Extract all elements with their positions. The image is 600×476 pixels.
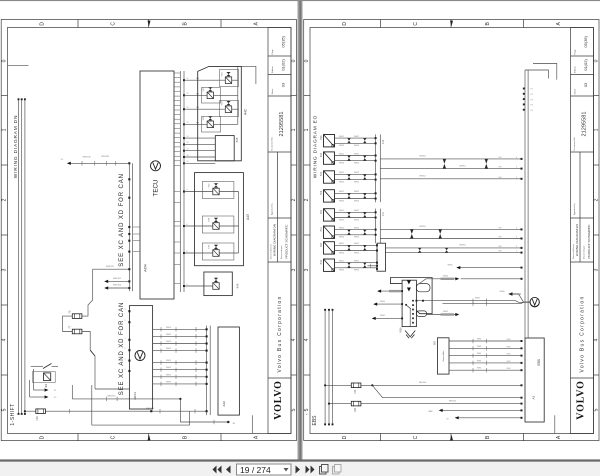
svg-text:WH21: WH21 xyxy=(339,153,344,155)
svg-text:WH21: WH21 xyxy=(339,243,344,245)
valve Y35 xyxy=(207,87,213,99)
svg-text:4: 4 xyxy=(516,157,517,159)
svg-text:4: 4 xyxy=(516,237,517,239)
diode arrows in housing xyxy=(407,280,411,284)
wire into ladder top xyxy=(68,162,129,164)
title block xyxy=(571,28,594,434)
svg-text:4: 4 xyxy=(516,167,517,169)
title block texts xyxy=(269,35,288,419)
svg-text:1: 1 xyxy=(291,128,297,131)
circle symbol right xyxy=(530,297,539,306)
sensor B48 xyxy=(215,136,234,161)
svg-text:P4: P4 xyxy=(531,105,533,107)
svg-text:P3: P3 xyxy=(531,99,533,101)
svg-text:4: 4 xyxy=(291,338,297,341)
svg-text:WH253: WH253 xyxy=(419,226,425,228)
svg-text:Document type: Document type xyxy=(280,245,283,259)
svg-text:F26: F26 xyxy=(354,407,357,412)
svg-text:Page: Page xyxy=(272,49,274,55)
wheel sensor B37 xyxy=(320,242,377,255)
valve housings A42 xyxy=(202,70,239,133)
svg-text:4: 4 xyxy=(304,338,310,341)
svg-text:PRODUCT SCHEMATIC: PRODUCT SCHEMATIC xyxy=(587,224,591,259)
svg-text:19 / 274: 19 / 274 xyxy=(240,465,271,475)
ground W36 xyxy=(405,331,415,339)
svg-text:Approved by: Approved by xyxy=(573,202,576,215)
svg-text:8: 8 xyxy=(187,284,188,286)
feed wire 1 with fuse F43 xyxy=(325,385,521,403)
TECU pin ladder xyxy=(180,71,184,292)
wire hook top-right xyxy=(241,66,256,84)
sheet border frame xyxy=(1,20,296,442)
svg-text:D: D xyxy=(342,435,348,439)
svg-text:D: D xyxy=(342,22,348,26)
svg-text:WH23: WH23 xyxy=(339,219,344,221)
svg-text:WH21: WH21 xyxy=(339,227,344,229)
svg-text:01(02): 01(02) xyxy=(281,59,286,71)
svg-text:WH1341: WH1341 xyxy=(101,156,110,158)
svg-text:0: 0 xyxy=(2,59,8,62)
svg-text:C: C xyxy=(413,435,419,439)
long wires group1 to EBS ECU xyxy=(380,159,521,179)
page-layout icon 2 xyxy=(333,465,342,475)
svg-text:WH24: WH24 xyxy=(354,219,359,221)
svg-text:WH13: WH13 xyxy=(166,367,171,369)
connector box X12 xyxy=(377,243,386,271)
svg-text:VOLVO: VOLVO xyxy=(273,380,284,419)
frame centering arrows xyxy=(450,21,453,27)
bottom arrow wires xyxy=(440,410,522,417)
page number input xyxy=(237,464,292,475)
title block texts xyxy=(572,35,591,419)
svg-text:11: 11 xyxy=(187,78,189,80)
svg-text:A3: A3 xyxy=(531,395,535,399)
svg-text:WH13: WH13 xyxy=(166,327,171,329)
svg-text:0: 0 xyxy=(594,59,600,62)
relay K4 xyxy=(44,373,51,381)
svg-text:WH22: WH22 xyxy=(354,172,359,174)
svg-text:WH22: WH22 xyxy=(354,243,359,245)
svg-text:4: 4 xyxy=(594,338,600,341)
svg-text:WH24: WH24 xyxy=(354,200,359,202)
svg-text:WH22: WH22 xyxy=(354,227,359,229)
wheel sensor B41 xyxy=(320,226,375,239)
sheet border frame xyxy=(304,20,599,442)
svg-text:P1: P1 xyxy=(531,89,533,91)
wires upper right arrows xyxy=(457,268,521,279)
valve Y34 xyxy=(225,101,231,113)
wire stub bottom-right xyxy=(251,415,253,433)
svg-text:1: 1 xyxy=(594,128,600,131)
svg-text:8: 8 xyxy=(187,224,188,226)
svg-text:WH6: WH6 xyxy=(507,346,511,348)
wheel sensor B40 xyxy=(320,152,375,165)
svg-text:WH23: WH23 xyxy=(339,163,344,165)
svg-text:X2: X2 xyxy=(54,397,56,399)
svg-text:3: 3 xyxy=(594,268,600,271)
svg-text:WH22: WH22 xyxy=(354,153,359,155)
wheel sensor B44 xyxy=(320,209,375,222)
svg-text:WH24: WH24 xyxy=(354,252,359,254)
left page sheet xyxy=(0,0,298,461)
svg-text:WH21: WH21 xyxy=(339,172,344,174)
svg-text:WH23: WH23 xyxy=(339,181,344,183)
wire stub bottom-right xyxy=(554,415,556,433)
svg-text:2: 2 xyxy=(2,198,8,201)
svg-text:WH23: WH23 xyxy=(339,200,344,202)
svg-text:D: D xyxy=(39,435,45,439)
wires TECU to A43 xyxy=(184,192,213,254)
svg-text:WH6: WH6 xyxy=(507,368,511,370)
svg-text:2: 2 xyxy=(291,198,297,201)
svg-text:01(02): 01(02) xyxy=(583,59,588,71)
svg-text:21295581: 21295581 xyxy=(279,112,285,137)
svg-text:4: 4 xyxy=(516,177,517,179)
svg-text:B40: B40 xyxy=(320,152,323,157)
svg-text:WH23: WH23 xyxy=(339,252,344,254)
hook wires top xyxy=(525,70,549,79)
valve wires A42 xyxy=(214,66,238,124)
svg-text:WH21: WH21 xyxy=(339,260,344,262)
wires XD arrows xyxy=(106,281,129,288)
svg-text:4: 4 xyxy=(2,338,8,341)
svg-text:WH45: WH45 xyxy=(500,291,505,293)
svg-text:WH24: WH24 xyxy=(354,145,359,147)
svg-text:WH41: WH41 xyxy=(475,298,480,300)
svg-text:B41: B41 xyxy=(320,226,323,231)
svg-text:WH55: WH55 xyxy=(448,265,453,267)
svg-text:VOLVO: VOLVO xyxy=(575,380,586,419)
svg-text:F26: F26 xyxy=(36,416,39,421)
svg-text:WH6: WH6 xyxy=(477,346,481,348)
svg-text:WH21: WH21 xyxy=(339,191,344,193)
svg-text:8: 8 xyxy=(187,251,188,253)
svg-text:EBS: EBS xyxy=(312,415,318,426)
svg-text:P5: P5 xyxy=(531,110,533,112)
svg-text:WH252: WH252 xyxy=(419,176,425,178)
bottom feed wires xyxy=(25,385,228,425)
housing switch diagonal xyxy=(407,306,411,309)
frame grid letters xyxy=(304,21,600,439)
EBS ECU vertical bus xyxy=(525,70,528,338)
top border xyxy=(0,0,600,1)
valve Y36 xyxy=(207,116,213,128)
valve Y38 xyxy=(213,218,219,230)
svg-text:05(35): 05(35) xyxy=(281,35,286,47)
svg-text:1: 1 xyxy=(2,128,8,131)
switch S1 lever xyxy=(43,364,52,369)
pin dots column xyxy=(523,88,525,111)
wheel sensor B43 xyxy=(320,171,375,184)
svg-text:A42: A42 xyxy=(244,109,248,115)
junction housing W36 cluster xyxy=(391,278,433,314)
svg-text:5: 5 xyxy=(2,408,8,411)
svg-text:WH1352: WH1352 xyxy=(113,278,122,280)
fuse F7 xyxy=(72,329,82,334)
svg-text:Document type: Document type xyxy=(583,245,586,259)
side feed arrow wire xyxy=(509,294,523,302)
svg-text:16: 16 xyxy=(187,142,189,144)
svg-text:B33: B33 xyxy=(320,259,323,264)
svg-text:21295581: 21295581 xyxy=(581,112,587,137)
control unit AR14 xyxy=(129,306,152,409)
svg-text:2: 2 xyxy=(594,198,600,201)
housing output wires xyxy=(416,279,530,315)
twisted pair circle right xyxy=(530,298,539,307)
svg-text:WH6: WH6 xyxy=(477,353,481,355)
relay K4 cluster wires xyxy=(30,366,58,397)
svg-text:WH23: WH23 xyxy=(339,270,344,272)
svg-text:B67: B67 xyxy=(434,340,437,345)
svg-text:WH13: WH13 xyxy=(166,341,171,343)
svg-text:3: 3 xyxy=(304,268,310,271)
module A29 xyxy=(218,327,239,415)
valve housings A43 xyxy=(202,182,234,261)
svg-text:WH13: WH13 xyxy=(166,360,171,362)
svg-text:B46: B46 xyxy=(320,190,323,195)
ECU TECU A434 xyxy=(140,71,174,299)
svg-text:F43: F43 xyxy=(354,389,357,394)
svg-text:A29: A29 xyxy=(222,401,226,407)
svg-text:WH21: WH21 xyxy=(339,136,344,138)
svg-text:B37: B37 xyxy=(320,242,323,247)
wire ladder to fuses xyxy=(82,269,129,316)
fuse F26 xyxy=(36,409,46,414)
svg-text:WH24: WH24 xyxy=(354,237,359,239)
svg-text:WH1610: WH1610 xyxy=(107,396,116,398)
svg-text:Sheet: Sheet xyxy=(573,88,576,94)
svg-text:B36: B36 xyxy=(320,135,323,140)
svg-text:WH6: WH6 xyxy=(507,361,511,363)
svg-text:12: 12 xyxy=(187,93,189,95)
svg-text:W36: W36 xyxy=(400,327,403,333)
svg-text:WIRING DIAGRAM DN: WIRING DIAGRAM DN xyxy=(13,115,19,178)
svg-text:17: 17 xyxy=(187,149,189,151)
pin number labels TECU ladder xyxy=(187,78,189,286)
svg-text:WH24: WH24 xyxy=(354,163,359,165)
svg-text:18: 18 xyxy=(187,155,189,157)
long wires group2 to EBS ECU xyxy=(380,229,521,252)
svg-text:C: C xyxy=(413,22,419,26)
svg-text:WH250: WH250 xyxy=(419,156,425,158)
svg-text:WH31: WH31 xyxy=(380,315,385,317)
connector ladder EBS-2 xyxy=(376,209,381,244)
next-page button xyxy=(296,466,301,474)
wheel sensor B36 xyxy=(320,135,375,148)
svg-text:WH22: WH22 xyxy=(354,260,359,262)
svg-text:5: 5 xyxy=(304,408,310,411)
svg-text:15: 15 xyxy=(187,136,189,138)
svg-text:WH254: WH254 xyxy=(459,245,465,247)
svg-text:WIRING DIAGRAM EO: WIRING DIAGRAM EO xyxy=(312,115,318,178)
connector ladder XC/XD xyxy=(129,163,132,291)
svg-text:3: 3 xyxy=(291,268,297,271)
valve Y39 xyxy=(213,245,219,256)
bottom page shadow xyxy=(0,459,600,461)
page-layout icon 1 xyxy=(320,465,329,475)
svg-text:WH1340: WH1340 xyxy=(83,157,92,159)
svg-text:X10: X10 xyxy=(382,139,385,144)
svg-text:C: C xyxy=(110,22,116,26)
svg-text:2: 2 xyxy=(304,198,310,201)
svg-text:5: 5 xyxy=(291,408,297,411)
wire stub top-left xyxy=(8,65,28,67)
svg-text:Volvo Bus Corporation: Volvo Bus Corporation xyxy=(579,295,585,372)
connector ladder A29 xyxy=(207,326,211,416)
svg-text:WH13: WH13 xyxy=(166,381,171,383)
svg-text:05(35): 05(35) xyxy=(583,35,588,47)
svg-text:P2: P2 xyxy=(531,94,533,96)
svg-text:WIRING DIAGRAM DN: WIRING DIAGRAM DN xyxy=(273,224,277,256)
svg-text:3: 3 xyxy=(2,268,8,271)
svg-text:B46: B46 xyxy=(235,283,239,288)
svg-text:WH21: WH21 xyxy=(339,210,344,212)
switch lever upper xyxy=(90,350,95,356)
svg-text:WH6: WH6 xyxy=(477,339,481,341)
svg-text:Edition: Edition xyxy=(271,66,274,73)
svg-text:WH6: WH6 xyxy=(507,339,511,341)
fuse link wires xyxy=(63,316,73,331)
fuse F5 xyxy=(72,314,82,319)
svg-text:WH1501: WH1501 xyxy=(449,401,456,403)
svg-text:D: D xyxy=(39,22,45,26)
valve Y37 xyxy=(213,183,219,195)
svg-text:SEE XC AND XD FOR CAN: SEE XC AND XD FOR CAN xyxy=(119,302,125,396)
svg-text:W: W xyxy=(306,414,308,416)
svg-text:WH13: WH13 xyxy=(166,334,171,336)
svg-text:WH6: WH6 xyxy=(477,360,481,362)
wires TECU to A42 xyxy=(184,80,225,163)
svg-text:14: 14 xyxy=(187,122,189,124)
valve wires A43 xyxy=(220,192,239,254)
sensor module B67 xyxy=(438,338,450,374)
svg-text:Approved by: Approved by xyxy=(270,202,273,215)
svg-text:WH22: WH22 xyxy=(354,210,359,212)
svg-text:B48: B48 xyxy=(235,137,239,142)
svg-text:K4: K4 xyxy=(44,384,48,388)
svg-text:TECU: TECU xyxy=(153,180,160,197)
svg-text:1-SHIFT: 1-SHIFT xyxy=(10,403,16,425)
wheel sensor B46 xyxy=(320,190,375,203)
svg-text:Document No: Document No xyxy=(270,136,273,150)
svg-text:WH251: WH251 xyxy=(459,165,465,167)
svg-text:1: 1 xyxy=(304,128,310,131)
right page sheet xyxy=(303,0,600,461)
power bus wires xyxy=(19,100,25,415)
svg-text:Sheet: Sheet xyxy=(271,88,274,94)
svg-text:Volvo Bus Corporation: Volvo Bus Corporation xyxy=(277,295,283,372)
svg-text:03: 03 xyxy=(281,82,286,87)
sensor B46 valve Y40 xyxy=(204,272,232,296)
svg-text:4: 4 xyxy=(516,251,517,253)
frame centering arrows xyxy=(148,21,151,27)
svg-text:8: 8 xyxy=(187,189,188,191)
harness AR14 to A29 xyxy=(153,329,207,384)
twisted pair circle in TECU xyxy=(151,161,161,171)
wire into circle xyxy=(443,302,531,304)
svg-text:WH6: WH6 xyxy=(507,354,511,356)
svg-text:WH13: WH13 xyxy=(166,348,171,350)
svg-text:4: 4 xyxy=(516,227,517,229)
svg-text:WH22: WH22 xyxy=(354,191,359,193)
svg-text:X11: X11 xyxy=(382,211,385,216)
svg-text:AR14: AR14 xyxy=(133,392,137,400)
connector ladder EBS-1 xyxy=(376,134,381,202)
svg-text:Sensor Anh.: Sensor Anh. xyxy=(442,350,445,361)
svg-text:WH1347: WH1347 xyxy=(106,266,115,268)
svg-text:31: 31 xyxy=(446,419,448,421)
svg-text:EBS: EBS xyxy=(537,359,541,365)
svg-text:WH23: WH23 xyxy=(339,237,344,239)
svg-text:WH23: WH23 xyxy=(339,145,344,147)
valve Y33 xyxy=(225,72,231,84)
svg-text:Document No: Document No xyxy=(573,136,576,150)
page gap xyxy=(298,0,303,461)
svg-text:SEE XC AND XD FOR CAN: SEE XC AND XD FOR CAN xyxy=(119,173,125,267)
enclosure A43 xyxy=(195,173,244,266)
svg-text:4: 4 xyxy=(516,246,517,248)
svg-text:19: 19 xyxy=(187,161,189,163)
title block xyxy=(268,28,291,434)
svg-text:WH6: WH6 xyxy=(477,368,481,370)
B67 harness wires xyxy=(449,341,522,370)
last-page button xyxy=(306,466,315,474)
svg-text:PRODUCT SCHEMATIC: PRODUCT SCHEMATIC xyxy=(285,224,289,259)
frame grid letters xyxy=(2,21,298,439)
svg-text:WH30: WH30 xyxy=(380,301,385,303)
svg-text:GND: GND xyxy=(428,411,433,413)
svg-text:A434: A434 xyxy=(143,264,147,272)
svg-text:WH42: WH42 xyxy=(443,311,448,313)
wheel sensor B33 xyxy=(320,259,377,272)
svg-text:C: C xyxy=(110,435,116,439)
svg-text:B43: B43 xyxy=(320,171,323,176)
svg-text:WH24: WH24 xyxy=(354,181,359,183)
svg-text:WIRING DIAGRAM EO: WIRING DIAGRAM EO xyxy=(575,223,579,256)
ECU box A3 xyxy=(525,338,544,422)
svg-text:WH22: WH22 xyxy=(354,136,359,138)
svg-text:Page: Page xyxy=(574,49,576,55)
housing input wires xyxy=(373,291,402,318)
first-page button xyxy=(213,466,222,474)
enclosure A42 xyxy=(198,66,242,160)
svg-text:13: 13 xyxy=(187,107,189,109)
svg-text:B44: B44 xyxy=(320,209,323,214)
prev-page button xyxy=(226,466,231,474)
svg-text:WH13: WH13 xyxy=(166,374,171,376)
svg-text:5: 5 xyxy=(594,408,600,411)
bus wires EBS xyxy=(325,309,332,425)
svg-text:X1: X1 xyxy=(54,390,56,392)
svg-text:WH24: WH24 xyxy=(354,270,359,272)
svg-text:A43: A43 xyxy=(246,214,250,220)
svg-text:Edition: Edition xyxy=(573,66,576,73)
svg-text:0: 0 xyxy=(291,59,297,62)
svg-text:WH1353: WH1353 xyxy=(113,285,122,287)
svg-text:0: 0 xyxy=(304,59,310,62)
svg-text:03: 03 xyxy=(583,82,588,87)
svg-text:WH1500: WH1500 xyxy=(419,382,426,384)
svg-text:WH40: WH40 xyxy=(443,275,448,277)
